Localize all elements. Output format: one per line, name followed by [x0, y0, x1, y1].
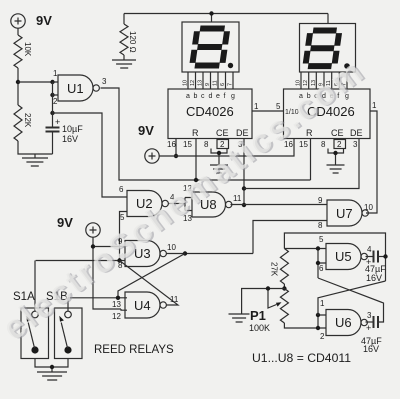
- svg-text:P1: P1: [250, 308, 266, 323]
- capacitor C2 47uF: [374, 251, 379, 263]
- svg-text:9V: 9V: [36, 13, 52, 28]
- svg-text:10: 10: [167, 243, 176, 252]
- svg-text:3: 3: [102, 77, 107, 86]
- svg-text:10: 10: [364, 203, 373, 212]
- svg-text:8: 8: [318, 221, 323, 230]
- svg-text:22K: 22K: [23, 113, 32, 128]
- svg-text:10: 10: [296, 80, 302, 86]
- wire: [17, 28, 19, 35]
- ground: [229, 314, 250, 322]
- wire: R3 to P1 node: [283, 284, 285, 289]
- svg-text:CE: CE: [216, 128, 229, 138]
- svg-text:U7: U7: [336, 206, 353, 221]
- ground: [22, 158, 48, 166]
- svg-text:12: 12: [190, 80, 196, 86]
- display DIS2 pins: [301, 72, 347, 89]
- NAND gate U5: [326, 244, 361, 270]
- svg-text:U1: U1: [67, 81, 84, 96]
- svg-text:6: 6: [220, 83, 226, 86]
- svg-text:1: 1: [53, 69, 58, 78]
- ground: [112, 60, 136, 68]
- wire: U6 out to C3: [366, 321, 374, 323]
- svg-text:27K: 27K: [270, 262, 279, 277]
- svg-text:U5: U5: [335, 249, 352, 264]
- svg-text:9: 9: [318, 196, 323, 205]
- svg-text:c: c: [201, 93, 205, 100]
- wire: U5 in tie cross to C3 node: [318, 278, 384, 322]
- wire: pin3 DE vertical: [243, 139, 245, 206]
- node: rail junction: [209, 11, 213, 15]
- svg-text:10µF: 10µF: [62, 124, 83, 134]
- svg-text:a: a: [186, 93, 190, 100]
- wire: 9V to U3 pin9 / U4 pin12: [93, 237, 127, 310]
- NAND gate U3: [125, 241, 160, 267]
- resistor 120 ohm: [123, 14, 125, 61]
- NAND gate U7: [327, 200, 362, 226]
- wire: U5 input ties: [284, 249, 326, 279]
- wire: U1 out to reset rail of both counters: [101, 88, 311, 180]
- wire: cross-couple to U4 pin13: [118, 254, 185, 298]
- wire: C2 node cross to U6 inputs: [318, 281, 386, 315]
- ground: [210, 165, 228, 173]
- wire: U2 pin5 from latch input net: [120, 212, 128, 261]
- svg-text:CE: CE: [331, 128, 344, 138]
- wire: pin15 R to reset rail: [195, 139, 197, 181]
- wire: top supply rail: [124, 14, 328, 24]
- wire: S1B to U4 pin13: [68, 297, 127, 299]
- NAND gate U6: [326, 310, 361, 336]
- svg-text:U1...U8 = CD4011: U1...U8 = CD4011: [252, 351, 351, 365]
- wire: osc node up and over to C2: [284, 233, 385, 281]
- svg-text:3: 3: [367, 311, 372, 320]
- potentiometer P1 100K: [280, 289, 288, 324]
- svg-text:CD4026: CD4026: [186, 104, 234, 119]
- wire: S1A latch input line: [36, 260, 125, 262]
- wire: node to ground: [242, 289, 285, 315]
- svg-text:6: 6: [319, 264, 324, 273]
- svg-text:f: f: [224, 93, 226, 100]
- NAND gate U8: [192, 192, 225, 217]
- svg-text:e: e: [216, 93, 220, 100]
- svg-text:1: 1: [320, 299, 325, 308]
- svg-text:10K: 10K: [23, 42, 32, 57]
- 7-segment display DIS2: [300, 24, 356, 73]
- wire: U4 out cross-couple to U3 pin8 net: [120, 261, 179, 306]
- 7-segment display DIS1: [182, 22, 239, 72]
- svg-text:U4: U4: [134, 298, 151, 313]
- wiper: [268, 289, 277, 309]
- svg-text:U6: U6: [335, 315, 352, 330]
- NAND gate U1: [58, 75, 93, 101]
- svg-text:1: 1: [254, 102, 259, 111]
- svg-text:R: R: [192, 128, 199, 138]
- IC CD4026 left counter: [168, 89, 252, 139]
- svg-text:16V: 16V: [366, 273, 382, 283]
- svg-text:9V: 9V: [57, 215, 73, 230]
- capacitor C1 10uF: [46, 128, 60, 132]
- svg-text:13: 13: [112, 300, 121, 309]
- resistor R1 10K: [14, 35, 22, 68]
- wire: U1 input tie: [50, 80, 54, 84]
- svg-text:2: 2: [320, 332, 325, 341]
- resistor R3 27K: [280, 249, 288, 285]
- svg-text:12: 12: [112, 312, 121, 321]
- svg-text:2: 2: [337, 140, 342, 149]
- svg-text:13: 13: [198, 80, 204, 86]
- wire: U3 out: [167, 253, 254, 255]
- svg-text:9V: 9V: [138, 123, 154, 138]
- wire: right pins 8+2 to ground: [328, 149, 344, 166]
- svg-text:11: 11: [213, 80, 219, 86]
- svg-text:120 Ω: 120 Ω: [128, 31, 137, 53]
- capacitor C3 47uF: [374, 316, 379, 328]
- NAND gate U4: [125, 292, 160, 318]
- wire: right pin15 R to reset rail: [310, 139, 312, 181]
- display DIS1 pins: [188, 72, 233, 89]
- wire: P1 bottom to U6 inputs: [284, 315, 326, 328]
- wire: switch commons to ground: [35, 359, 68, 373]
- battery 9V top left: [11, 14, 25, 28]
- wire: [18, 141, 53, 158]
- wire: right pin16 to 9V rail: [160, 139, 295, 157]
- svg-text:6: 6: [119, 185, 124, 194]
- wire: U7 pin8 from U3 out: [253, 221, 327, 254]
- svg-text:15: 15: [299, 140, 308, 149]
- svg-text:10: 10: [183, 80, 189, 86]
- wire: U5 out to C2: [366, 256, 374, 258]
- svg-text:3: 3: [353, 140, 358, 149]
- svg-text:+: +: [55, 117, 60, 127]
- svg-text:11: 11: [233, 194, 242, 203]
- svg-text:8: 8: [204, 140, 209, 149]
- wire: cap node to U2 pin 6: [53, 113, 128, 197]
- svg-text:b: b: [194, 93, 198, 100]
- svg-text:1: 1: [372, 101, 377, 110]
- svg-text:15: 15: [183, 140, 192, 149]
- svg-text:16V: 16V: [62, 134, 78, 144]
- svg-text:4: 4: [367, 245, 372, 254]
- ground: [327, 165, 345, 173]
- svg-text:d: d: [209, 93, 213, 100]
- watermark electroSchematics.com: [0, 50, 374, 349]
- IC CD4026 right counter: [284, 89, 371, 139]
- svg-text:7: 7: [228, 83, 234, 86]
- svg-text:100K: 100K: [249, 323, 270, 333]
- wire: pin16 to 9V rail: [175, 139, 177, 157]
- resistor R2 22K: [14, 105, 22, 141]
- wire: pins 8+2 to ground: [211, 149, 227, 166]
- svg-text:9: 9: [205, 83, 211, 86]
- svg-text:REED RELAYS: REED RELAYS: [94, 344, 174, 356]
- ground: [37, 372, 67, 380]
- svg-text:2: 2: [53, 97, 58, 106]
- svg-text:5: 5: [319, 235, 324, 244]
- svg-text:+: +: [366, 323, 371, 333]
- wire: divider node: [17, 68, 19, 105]
- svg-text:16: 16: [167, 140, 176, 149]
- svg-text:DE: DE: [350, 128, 363, 138]
- svg-text:16V: 16V: [363, 344, 379, 354]
- wire: DE link to right counter: [244, 139, 359, 189]
- svg-text:g: g: [231, 93, 235, 100]
- svg-text:8: 8: [321, 140, 326, 149]
- NAND gate U2: [127, 191, 162, 217]
